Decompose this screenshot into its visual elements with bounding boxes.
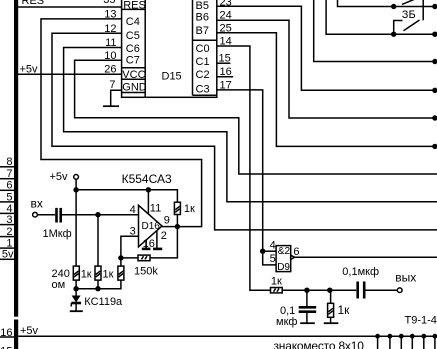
wire C1 pin15 stub [217, 62, 231, 64]
IC U-D15 outline [122, 0, 217, 97]
wire zener node [76, 280, 121, 289]
svg-text:C6: C6 [126, 43, 140, 55]
wire B7 pin25 to right edge [217, 33, 437, 147]
resistor R-out 1k body [271, 288, 283, 293]
IC D15 left column divider under RES [122, 8, 146, 10]
node junction on line 2 [391, 32, 396, 37]
wire +5v rail [76, 190, 177, 202]
ground zener [70, 310, 83, 312]
wire comparator output pin 9 [162, 226, 177, 228]
svg-text:C2: C2 [196, 69, 210, 81]
svg-text:RES: RES [22, 0, 45, 7]
svg-text:1к: 1к [271, 275, 282, 287]
svg-text:B5: B5 [196, 0, 209, 12]
svg-text:5: 5 [270, 253, 276, 265]
node junction R 1k load [327, 288, 332, 293]
svg-text:D16: D16 [142, 221, 161, 232]
svg-text:C1: C1 [196, 56, 210, 68]
wire C7 pin10 staircase to right edge [75, 60, 437, 174]
svg-text:знакоместо 8х10: знакоместо 8х10 [274, 339, 365, 349]
node junction R2 bottom [95, 286, 100, 291]
wire R-out to coupling cap [282, 289, 356, 291]
wire B5 pin23 to right edge [217, 6, 437, 90]
IC D15 left pin-name column [144, 0, 146, 97]
svg-text:мкф: мкф [276, 316, 297, 328]
wire from top edge to right edge line 3 [314, 0, 437, 62]
svg-text:26: 26 [104, 64, 116, 76]
node right edge junction dots [432, 4, 437, 9]
wire D9 output to right edge [295, 256, 437, 258]
zener diode KC119a [75, 289, 77, 296]
node junction output [175, 224, 180, 229]
svg-text:ом: ом [52, 279, 66, 291]
svg-text:2: 2 [161, 230, 167, 242]
svg-text:9: 9 [164, 215, 170, 227]
wire +5v bus to chip pin 26 VCC [18, 73, 122, 75]
svg-text:0,1мкф: 0,1мкф [342, 266, 379, 278]
switch SB upper cut fragment blade [402, 0, 418, 4]
svg-text:4: 4 [270, 239, 276, 251]
wire coupling cap to output terminal [365, 289, 397, 291]
switch SB wire from line1 [422, 0, 424, 20]
svg-text:D9: D9 [277, 262, 290, 273]
bus connector upper bar [14, 0, 18, 317]
ground R-load [324, 322, 339, 324]
wire comparator pin 2 to ground [156, 231, 158, 249]
wire +5v bottom rail [18, 335, 437, 337]
node junction pin11 [146, 187, 151, 192]
svg-text:RES: RES [123, 0, 146, 12]
display anode junction dots and wires [375, 334, 380, 339]
node junction on line 1 [391, 4, 396, 9]
gate D9 output flag [291, 255, 295, 259]
capacitor C-1Mkf plates [55, 208, 58, 223]
wire D9 pin4 [263, 250, 276, 252]
wire from top edge to right edge line 2 [326, 0, 437, 34]
wire pull-up to output [176, 215, 178, 227]
svg-text:11: 11 [150, 203, 161, 215]
svg-text:C4: C4 [126, 16, 140, 28]
wire input to capacitor [38, 214, 56, 216]
ground under chip GND pin 7 [111, 90, 122, 105]
node junction +5v rail [73, 187, 78, 192]
svg-text:К554СА3: К554СА3 [122, 172, 172, 186]
IC D15 left column divider under VCC [122, 78, 146, 80]
wire RES bus to chip pin 35 [18, 6, 122, 8]
wire comparator pin 3 [121, 236, 139, 266]
resistor R3 1k body [118, 266, 124, 280]
svg-text:1Мкф: 1Мкф [43, 228, 72, 240]
wire comparator pin 16 to ground [145, 240, 147, 248]
svg-text:Т9-1-4: Т9-1-4 [405, 315, 437, 327]
wire 150k right to output [150, 227, 177, 258]
switch SB fixed contact stub [394, 21, 403, 35]
node junction R2 top [95, 212, 100, 217]
svg-text:23: 23 [220, 0, 232, 9]
wire C3 pin17 to gate D9 input [217, 90, 276, 265]
wire comparator pin 11 [147, 190, 149, 214]
resistor R-load 1k body [330, 290, 332, 303]
resistor R2 1k body [95, 266, 101, 280]
svg-text:GND: GND [122, 82, 147, 94]
IC D15 left column divider under C7 [122, 67, 146, 69]
svg-text:C0: C0 [196, 43, 210, 55]
svg-text:C3: C3 [196, 83, 210, 95]
svg-text:+5v: +5v [20, 325, 39, 337]
wire C4 pin13 staircase to comparator output [41, 19, 202, 227]
IC D15 right column divider under B7 [193, 39, 217, 41]
wire C2 pin16 stub [217, 76, 233, 78]
svg-text:C7: C7 [126, 54, 140, 66]
wire B6 pin24 to right edge [217, 20, 437, 118]
wire C0 pin14 down to resistor R-out [217, 46, 271, 290]
svg-text:1к: 1к [81, 269, 92, 281]
svg-text:4: 4 [130, 204, 136, 216]
capacitor filter 0.1mkf [306, 290, 308, 306]
svg-text:D15: D15 [162, 71, 182, 83]
svg-text:ЗБ: ЗБ [402, 9, 416, 21]
resistor R1 240om body [73, 266, 79, 280]
wire 150k left [121, 257, 138, 259]
switch SB blade [404, 20, 420, 31]
wire from top edge to right edge line 1 [338, 0, 437, 7]
wire C5 pin12 staircase to right edge [52, 33, 437, 230]
ground filter cap [300, 322, 315, 324]
svg-text:C5: C5 [126, 30, 140, 42]
svg-text:вх: вх [31, 197, 43, 211]
IC D15 right pin-name column [192, 0, 194, 95]
node junction filter cap [304, 288, 309, 293]
svg-text:вых: вых [395, 270, 416, 284]
resistor 1k pull-up body [174, 202, 180, 214]
svg-text:1к: 1к [103, 269, 114, 281]
svg-text:+5v: +5v [50, 171, 69, 183]
gate D9 box [276, 246, 291, 272]
node вых output terminal [397, 288, 402, 293]
wire capacitor to comparator pin 4 [62, 214, 139, 216]
svg-text:VCC: VCC [122, 69, 145, 81]
node junction 150k left [118, 255, 123, 260]
node D9 input junction [260, 249, 265, 254]
wire C6 pin11 staircase to right edge [64, 48, 437, 202]
svg-text:&2: &2 [278, 246, 291, 257]
wire +5v terminal down to R1 [75, 180, 77, 267]
svg-text:15: 15 [0, 346, 12, 349]
svg-text:1к: 1к [338, 303, 351, 317]
op-amp D16 triangle [139, 205, 163, 247]
node junction zener [73, 286, 78, 291]
bus connector lower bar [14, 320, 18, 349]
wire R2 top down [97, 215, 99, 266]
svg-text:7: 7 [109, 79, 115, 91]
svg-text:B7: B7 [196, 25, 209, 37]
svg-text:35: 35 [103, 0, 115, 6]
capacitor coupling 0.1mkf plates [356, 282, 359, 299]
svg-text:B6: B6 [196, 12, 209, 24]
resistor 150k body [138, 255, 150, 261]
svg-text:КС119а: КС119а [84, 296, 123, 308]
svg-text:1к: 1к [184, 203, 195, 215]
svg-text:150k: 150k [134, 266, 158, 278]
